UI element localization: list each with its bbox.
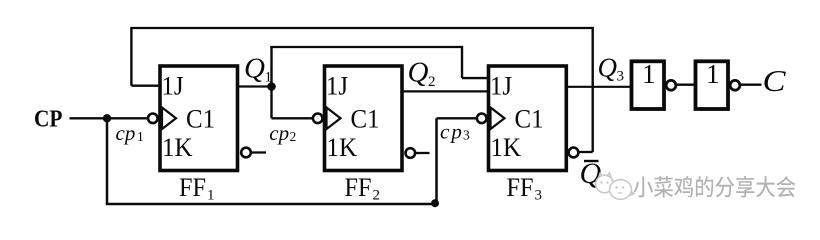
label cp3 bbox=[440, 119, 470, 143]
svg-text:FF: FF bbox=[179, 173, 206, 202]
label Q1 bbox=[244, 53, 272, 86]
flip-flop FF1 box bbox=[160, 66, 238, 171]
pin label C1 of FF3 bbox=[515, 105, 544, 134]
svg-text:1K: 1K bbox=[327, 133, 358, 162]
flip-flop FF2 box bbox=[325, 66, 403, 171]
svg-text:2: 2 bbox=[428, 74, 436, 90]
svg-text:Q: Q bbox=[244, 53, 265, 85]
svg-text:1: 1 bbox=[706, 59, 720, 89]
svg-text:C1: C1 bbox=[351, 105, 380, 134]
svg-text:3: 3 bbox=[535, 188, 543, 204]
pin label 1J of FF3 bbox=[490, 72, 512, 101]
node CP junction bbox=[103, 114, 111, 122]
flip-flop FF1 Qbar bubble bbox=[241, 148, 251, 158]
svg-text:1K: 1K bbox=[162, 133, 193, 162]
wire G1 to G2 bbox=[675, 84, 695, 86]
svg-text:FF: FF bbox=[507, 173, 534, 202]
pin label 1J of FF2 bbox=[326, 72, 348, 101]
svg-text:1: 1 bbox=[207, 188, 215, 204]
label Q2 bbox=[408, 57, 436, 91]
svg-text:C1: C1 bbox=[186, 105, 215, 134]
flip-flop FF2 Qbar bubble bbox=[406, 148, 416, 158]
flip-flop FF3 Qbar bubble bbox=[569, 148, 579, 158]
svg-text:2: 2 bbox=[373, 188, 381, 204]
wire CP junction down bbox=[106, 118, 109, 204]
node bottom corner junction bbox=[431, 199, 439, 207]
svg-text:CP: CP bbox=[34, 106, 63, 132]
svg-text:C1: C1 bbox=[515, 105, 544, 134]
wire CP input to FF1 clock bbox=[70, 117, 149, 119]
wire Q2 output to FF3 J bbox=[402, 90, 489, 92]
pin label 1J of FF1 bbox=[162, 72, 184, 101]
svg-text:3: 3 bbox=[463, 127, 470, 142]
watermark icon chick faces bbox=[596, 173, 634, 200]
svg-text:cp: cp bbox=[116, 121, 136, 145]
label FF3 bbox=[507, 173, 543, 204]
svg-text:1J: 1J bbox=[326, 72, 348, 101]
wire Q1 to FF3 J (inner top line) bbox=[270, 46, 488, 87]
node Q1 junction bbox=[267, 82, 276, 91]
wire FF2 Qbar stub bbox=[415, 152, 430, 154]
svg-text:1: 1 bbox=[642, 59, 656, 89]
gate G1 buffer box bbox=[632, 59, 665, 109]
svg-text:Q: Q bbox=[408, 57, 429, 89]
pin label C1 of FF2 bbox=[351, 105, 380, 134]
flip-flop FF3 box bbox=[489, 66, 567, 171]
svg-text:2: 2 bbox=[290, 129, 297, 144]
label cp2 bbox=[269, 121, 296, 145]
svg-text:cp: cp bbox=[440, 119, 464, 143]
label FF2 bbox=[345, 173, 381, 204]
flip-flop FF3 clock triangle bbox=[491, 108, 505, 130]
flip-flop FF2 clock bubble bbox=[313, 114, 323, 124]
svg-text:Q: Q bbox=[598, 53, 618, 83]
svg-text:C: C bbox=[763, 63, 786, 98]
wire Q3 output to gate G1 bbox=[566, 86, 631, 88]
svg-text:FF: FF bbox=[345, 173, 372, 202]
svg-text:cp: cp bbox=[269, 121, 289, 145]
pin label C1 of FF1 bbox=[186, 105, 215, 134]
flip-flop FF3 clock bubble bbox=[477, 114, 487, 124]
label Q3 bbox=[598, 53, 625, 85]
wire G2 to C bbox=[739, 84, 761, 86]
label C output bbox=[763, 63, 786, 98]
label CP input bbox=[34, 106, 63, 132]
wire FF3 Qbar to feedback riser bbox=[578, 151, 592, 153]
svg-text:3: 3 bbox=[617, 69, 625, 85]
gate G2 buffer box bbox=[696, 59, 729, 109]
wire Qbar3 feedback to J1 (top line) bbox=[131, 27, 592, 152]
gate G1 output bubble bbox=[666, 80, 676, 90]
flip-flop FF2 clock triangle bbox=[327, 108, 341, 130]
label FF1 bbox=[179, 173, 215, 204]
pin label 1K of FF2 bbox=[327, 133, 358, 162]
svg-text:1J: 1J bbox=[490, 72, 512, 101]
wire CP bottom bus bbox=[106, 203, 437, 205]
pin label 1K of FF3 bbox=[491, 133, 522, 162]
label cp1 bbox=[116, 121, 144, 145]
wire Q1 to FF2 clock bbox=[272, 87, 314, 119]
label Qbar3 bbox=[580, 157, 602, 190]
flip-flop FF1 clock triangle bbox=[162, 108, 176, 130]
wire Q1 output bbox=[238, 85, 272, 87]
wire CP riser to FF3 clock bbox=[437, 118, 478, 205]
wire FF1 Qbar stub bbox=[251, 151, 266, 153]
pin label 1K of FF1 bbox=[162, 133, 193, 162]
svg-text:1: 1 bbox=[137, 129, 144, 144]
svg-text:1J: 1J bbox=[162, 72, 184, 101]
flip-flop FF1 clock bubble bbox=[148, 114, 158, 124]
watermark text 小菜鸡的分享大会 bbox=[634, 176, 796, 198]
svg-text:1K: 1K bbox=[491, 133, 522, 162]
gate G2 output bubble bbox=[730, 80, 740, 90]
